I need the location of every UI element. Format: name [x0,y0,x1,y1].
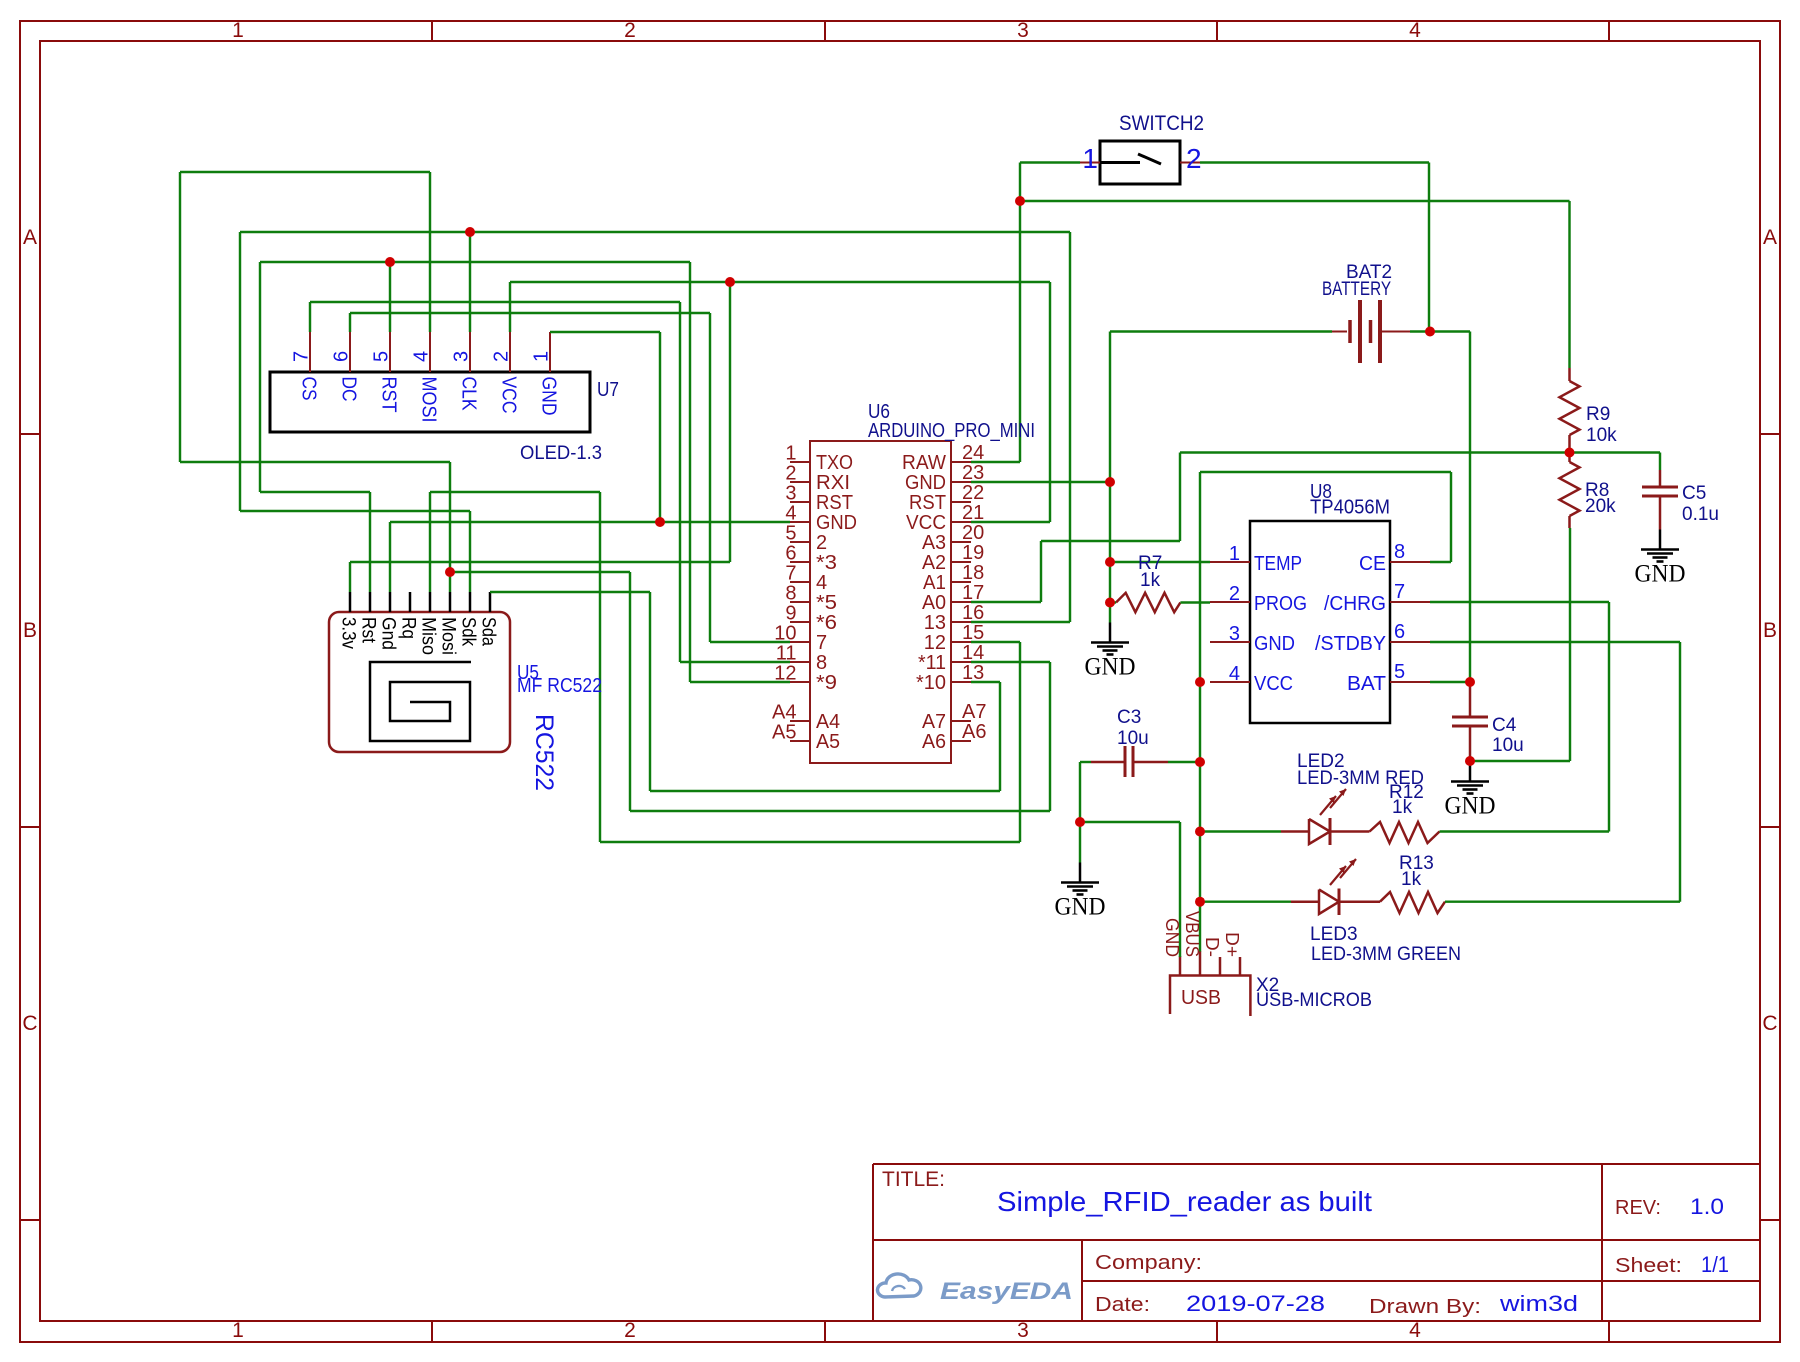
svg-text:TP4056M: TP4056M [1310,497,1390,519]
svg-text:B: B [23,619,37,642]
svg-text:USB-MICROB: USB-MICROB [1256,990,1372,1011]
svg-text:12: 12 [774,663,796,685]
svg-text:Sdk: Sdk [458,617,479,646]
svg-text:TITLE:: TITLE: [882,1168,945,1191]
svg-text:1: 1 [1082,143,1098,174]
svg-text:4: 4 [1229,663,1240,685]
svg-text:8: 8 [1394,541,1405,563]
svg-text:15: 15 [962,622,984,644]
svg-text:8: 8 [816,652,827,674]
svg-text:A5: A5 [816,731,840,753]
svg-text:7: 7 [816,632,827,654]
svg-text:Sheet:: Sheet: [1615,1255,1682,1277]
svg-text:A4: A4 [772,702,796,724]
svg-text:Drawn By:: Drawn By: [1369,1296,1481,1318]
svg-text:10: 10 [774,623,796,645]
svg-text:Date:: Date: [1095,1294,1150,1316]
svg-text:MF RC522: MF RC522 [517,675,602,697]
svg-text:TXO: TXO [816,452,853,474]
svg-text:SWITCH2: SWITCH2 [1119,112,1204,135]
svg-text:A3: A3 [922,532,946,554]
svg-text:1: 1 [531,351,553,362]
svg-text:4: 4 [1409,19,1421,42]
svg-text:23: 23 [962,462,984,484]
svg-text:GND: GND [1085,654,1136,681]
svg-text:VCC: VCC [906,512,946,534]
svg-text:3: 3 [1229,623,1240,645]
svg-text:1: 1 [1229,543,1240,565]
svg-text:VCC: VCC [498,377,520,414]
svg-text:10u: 10u [1492,735,1524,756]
svg-text:2: 2 [624,19,636,42]
svg-text:GND: GND [1254,633,1295,655]
svg-text:2: 2 [816,532,827,554]
svg-text:3.3v: 3.3v [338,617,359,649]
svg-text:4: 4 [816,572,827,594]
svg-text:18: 18 [962,562,984,584]
svg-text:A: A [1763,226,1777,249]
svg-text:ARDUINO_PRO_MINI: ARDUINO_PRO_MINI [868,420,1035,442]
svg-text:CLK: CLK [458,377,480,412]
svg-text:GND: GND [538,377,560,416]
svg-text:2: 2 [491,351,513,362]
svg-text:TEMP: TEMP [1254,553,1302,575]
svg-text:7: 7 [291,351,313,362]
svg-text:10k: 10k [1586,425,1617,446]
svg-text:D-: D- [1202,937,1222,957]
svg-text:Rq: Rq [398,617,419,639]
svg-text:C5: C5 [1682,483,1706,504]
svg-text:3: 3 [1017,1319,1029,1342]
svg-text:10u: 10u [1117,728,1149,749]
svg-text:1k: 1k [1140,570,1161,591]
svg-text:Sda: Sda [478,617,499,646]
svg-text:1k: 1k [1401,869,1422,890]
svg-text:6: 6 [1394,621,1405,643]
svg-text:2: 2 [1186,143,1202,174]
svg-text:USB: USB [1181,987,1221,1009]
svg-text:/STDBY: /STDBY [1315,633,1386,655]
svg-text:A4: A4 [816,711,840,733]
svg-text:Miso: Miso [418,617,439,655]
svg-text:VCC: VCC [1254,673,1293,695]
svg-text:20: 20 [962,522,984,544]
svg-text:2: 2 [624,1319,636,1342]
svg-text:Simple_RFID_reader as built: Simple_RFID_reader as built [997,1186,1372,1217]
svg-text:GND: GND [816,512,857,534]
svg-text:6: 6 [331,351,353,362]
svg-text:/CHRG: /CHRG [1324,593,1386,615]
svg-text:A: A [23,226,37,249]
svg-text:14: 14 [962,642,984,664]
svg-text:RC522: RC522 [530,714,558,791]
svg-text:Company:: Company: [1095,1252,1202,1274]
svg-text:2019-07-28: 2019-07-28 [1186,1291,1325,1316]
svg-text:1.0: 1.0 [1690,1194,1724,1219]
svg-text:9: 9 [785,603,796,625]
svg-text:A2: A2 [922,552,946,574]
svg-text:CE: CE [1359,553,1386,575]
svg-text:BATTERY: BATTERY [1322,279,1391,300]
svg-text:PROG: PROG [1254,593,1307,615]
svg-text:GND: GND [1055,894,1106,921]
svg-text:C4: C4 [1492,715,1517,736]
svg-text:4: 4 [411,351,433,362]
svg-text:*9: *9 [816,672,837,694]
svg-text:13: 13 [924,612,946,634]
svg-text:7: 7 [1394,581,1405,603]
svg-text:6: 6 [785,543,796,565]
svg-text:A0: A0 [922,592,946,614]
svg-text:MOSI: MOSI [418,377,440,423]
svg-text:*3: *3 [816,552,837,574]
svg-text:CS: CS [298,377,320,401]
svg-text:*6: *6 [816,612,837,634]
svg-text:*11: *11 [918,652,946,674]
svg-text:A1: A1 [923,572,946,594]
svg-text:5: 5 [785,523,796,545]
svg-text:A6: A6 [922,731,946,753]
svg-text:BAT: BAT [1347,673,1386,695]
svg-text:A7: A7 [962,701,986,723]
svg-text:LED3: LED3 [1310,924,1358,945]
svg-text:Gnd: Gnd [378,617,399,650]
svg-text:3: 3 [785,483,796,505]
svg-text:5: 5 [1394,661,1405,683]
svg-text:*5: *5 [816,592,837,614]
svg-text:*10: *10 [916,672,946,694]
svg-text:3: 3 [451,351,473,362]
svg-text:GND: GND [1445,793,1496,820]
svg-text:21: 21 [962,502,984,524]
svg-text:RXI: RXI [816,472,850,494]
svg-text:C: C [1762,1012,1777,1035]
svg-text:VBUS: VBUS [1182,911,1202,957]
svg-text:1k: 1k [1392,797,1413,818]
svg-text:D+: D+ [1222,932,1242,957]
svg-text:Mosi: Mosi [438,617,459,655]
svg-text:13: 13 [962,662,984,684]
svg-text:REV:: REV: [1615,1197,1661,1219]
svg-text:24: 24 [962,442,984,464]
svg-text:11: 11 [776,643,797,665]
svg-text:3: 3 [1017,19,1029,42]
svg-text:4: 4 [1409,1319,1421,1342]
svg-text:A7: A7 [922,711,946,733]
svg-text:17: 17 [962,582,984,604]
svg-text:R9: R9 [1586,404,1610,425]
svg-text:B: B [1763,619,1777,642]
svg-text:0.1u: 0.1u [1682,504,1719,525]
svg-text:4: 4 [785,503,796,525]
svg-text:7: 7 [785,563,796,585]
svg-text:16: 16 [962,602,984,624]
svg-text:5: 5 [371,351,393,362]
svg-text:RAW: RAW [902,452,946,474]
svg-text:C3: C3 [1117,707,1141,728]
svg-text:GND: GND [1635,561,1686,588]
svg-text:U7: U7 [597,379,619,401]
svg-text:1: 1 [785,443,796,465]
svg-text:RST: RST [909,492,946,514]
svg-text:2: 2 [785,463,796,485]
svg-text:19: 19 [962,542,984,564]
svg-text:1: 1 [232,1319,244,1342]
svg-text:wim3d: wim3d [1499,1291,1578,1316]
svg-text:RST: RST [816,492,853,514]
svg-text:LED-3MM GREEN: LED-3MM GREEN [1311,944,1461,965]
svg-text:RST: RST [378,377,400,413]
svg-text:EasyEDA: EasyEDA [940,1278,1073,1305]
svg-text:Rst: Rst [358,617,379,644]
svg-text:1/1: 1/1 [1701,1252,1729,1277]
svg-text:GND: GND [1162,918,1182,957]
svg-text:1: 1 [232,19,244,42]
svg-text:A6: A6 [962,721,986,743]
svg-text:DC: DC [338,377,360,402]
svg-text:20k: 20k [1585,496,1616,517]
svg-text:8: 8 [785,583,796,605]
svg-text:12: 12 [924,632,946,654]
svg-text:22: 22 [962,482,984,504]
svg-text:GND: GND [905,472,946,494]
svg-text:OLED-1.3: OLED-1.3 [520,443,602,464]
svg-text:2: 2 [1229,583,1240,605]
svg-text:A5: A5 [772,722,796,744]
svg-text:C: C [22,1012,37,1035]
